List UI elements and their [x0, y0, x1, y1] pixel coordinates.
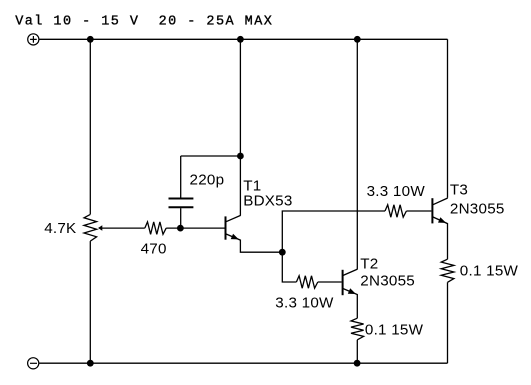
- svg-text:470: 470: [141, 240, 167, 257]
- svg-text:3.3 10W: 3.3 10W: [275, 295, 334, 312]
- svg-text:BDX53: BDX53: [243, 193, 292, 210]
- svg-text:2N3055: 2N3055: [450, 201, 505, 218]
- svg-text:2N3055: 2N3055: [360, 273, 415, 290]
- svg-text:T2: T2: [360, 256, 378, 273]
- svg-text:3.3 10W: 3.3 10W: [367, 183, 426, 200]
- svg-text:4.7K: 4.7K: [44, 220, 76, 237]
- svg-text:0.1 15W: 0.1 15W: [460, 262, 519, 279]
- svg-text:T3: T3: [450, 182, 468, 199]
- svg-text:0.1 15W: 0.1 15W: [365, 322, 424, 339]
- svg-text:Val 10 - 15 V 20 - 25A MAX: Val 10 - 15 V 20 - 25A MAX: [15, 15, 273, 30]
- svg-text:220p: 220p: [190, 171, 225, 188]
